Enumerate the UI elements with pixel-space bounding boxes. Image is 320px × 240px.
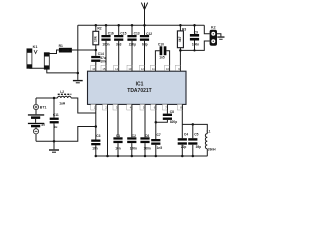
svg-text:3n3: 3n3 <box>116 42 122 46</box>
svg-text:IC1: IC1 <box>136 82 144 88</box>
svg-text:220p: 220p <box>129 42 136 46</box>
svg-text:C16: C16 <box>108 32 114 36</box>
svg-text:22p: 22p <box>181 145 187 149</box>
svg-text:C10: C10 <box>158 42 164 46</box>
svg-text:L1: L1 <box>207 129 211 133</box>
svg-text:C9: C9 <box>194 30 198 34</box>
svg-text:12: 12 <box>141 67 144 71</box>
svg-text:C8: C8 <box>170 110 174 114</box>
svg-text:100n: 100n <box>192 43 199 47</box>
svg-text:K2: K2 <box>211 25 216 29</box>
svg-text:10n: 10n <box>92 146 98 150</box>
svg-text:C5: C5 <box>194 133 198 137</box>
svg-text:BT1: BT1 <box>40 106 47 110</box>
svg-text:100R: 100R <box>61 49 70 53</box>
svg-text:4k7: 4k7 <box>178 36 182 42</box>
svg-text:10V: 10V <box>100 59 107 63</box>
svg-text:10: 10 <box>166 67 169 71</box>
svg-text:10k: 10k <box>93 36 97 42</box>
svg-text:13: 13 <box>128 67 131 71</box>
svg-text:C3: C3 <box>96 134 100 138</box>
svg-text:1n5: 1n5 <box>159 55 165 59</box>
svg-text:C13: C13 <box>134 32 140 36</box>
svg-text:68p: 68p <box>142 42 148 46</box>
svg-text:C6: C6 <box>145 134 149 138</box>
svg-text:10n: 10n <box>115 147 121 151</box>
svg-text:C15: C15 <box>120 32 126 36</box>
svg-text:C2: C2 <box>132 134 136 138</box>
svg-text:TDA7021T: TDA7021T <box>127 88 151 94</box>
svg-text:K1: K1 <box>33 45 38 49</box>
svg-text:L2: L2 <box>60 90 64 94</box>
svg-text:C12: C12 <box>146 32 152 36</box>
svg-text:C4: C4 <box>184 133 188 137</box>
svg-text:C7: C7 <box>157 133 161 137</box>
svg-text:C11: C11 <box>53 113 59 117</box>
svg-text:16: 16 <box>92 67 95 71</box>
svg-text:100n: 100n <box>130 147 137 151</box>
svg-text:1uH: 1uH <box>59 102 66 106</box>
svg-text:14: 14 <box>115 67 118 71</box>
svg-text:39nH: 39nH <box>208 148 216 152</box>
svg-text:820p: 820p <box>170 120 177 124</box>
svg-text:1n5: 1n5 <box>157 146 163 150</box>
svg-text:100n: 100n <box>144 147 151 151</box>
svg-text:R2: R2 <box>97 27 101 31</box>
svg-text:C1: C1 <box>116 134 120 138</box>
svg-text:1u: 1u <box>54 125 58 129</box>
svg-text:11: 11 <box>152 67 155 71</box>
svg-text:15: 15 <box>102 67 105 71</box>
svg-text:39p: 39p <box>196 145 202 149</box>
svg-text:R1: R1 <box>59 44 63 48</box>
svg-text:R3: R3 <box>182 28 186 32</box>
svg-text:100n: 100n <box>102 42 109 46</box>
